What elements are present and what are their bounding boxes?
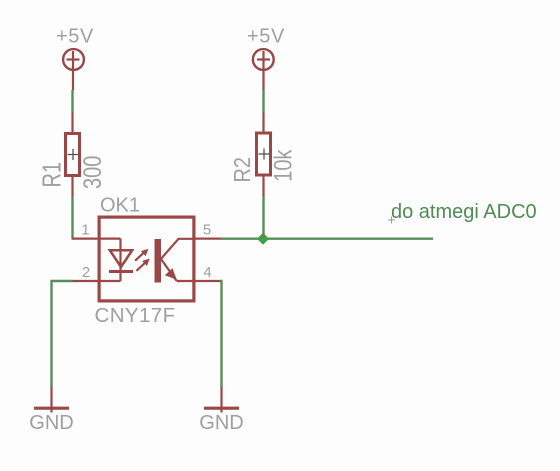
wire pin4 to right GND (220, 281, 222, 387)
light arrow 1 (135, 249, 148, 261)
svg-text:10k: 10k (269, 149, 297, 182)
svg-text:GND: GND (199, 412, 243, 434)
optocoupler OK1 (95, 195, 194, 328)
LED inside OK1 (99, 239, 133, 281)
svg-text:OK1: OK1 (100, 195, 140, 217)
svg-text:R1: R1 (37, 162, 66, 188)
svg-text:300: 300 (79, 156, 107, 189)
svg-text:+5V: +5V (247, 26, 285, 48)
label do atmegi ADC0 (388, 201, 537, 224)
wire R1 to OK1 pin 1 (71, 197, 73, 240)
wire +5V to R1 (71, 90, 73, 113)
junction node (257, 233, 269, 245)
phototransistor inside OK1 (155, 239, 196, 283)
power +5V supply P2 (247, 26, 285, 91)
power +5V supply P1 (56, 26, 94, 91)
resistor R2 (228, 113, 297, 198)
OK1 pin 5 (194, 222, 222, 239)
resistor R1 (37, 113, 107, 198)
wire pin5 to ADC0 (221, 237, 433, 239)
svg-text:5: 5 (203, 222, 211, 239)
svg-text:GND: GND (29, 412, 73, 434)
svg-text:4: 4 (203, 264, 211, 281)
svg-text:do atmegi ADC0: do atmegi ADC0 (391, 201, 537, 223)
OK1 pin 4 (194, 264, 222, 281)
OK1 pin 1 (72, 222, 99, 239)
OK1 pin 2 (72, 264, 99, 281)
ground GND right (199, 387, 243, 435)
svg-text:2: 2 (82, 264, 90, 281)
wire +5V to R2 (262, 90, 264, 113)
svg-text:+5V: +5V (56, 26, 94, 48)
wire pin2 to left GND (52, 281, 73, 387)
svg-text:CNY17F: CNY17F (95, 304, 176, 327)
wire R2 to junction (262, 197, 264, 240)
light arrow 2 (136, 259, 149, 271)
svg-text:1: 1 (81, 222, 89, 239)
svg-text:R2: R2 (228, 157, 255, 183)
ground GND left (29, 387, 73, 435)
